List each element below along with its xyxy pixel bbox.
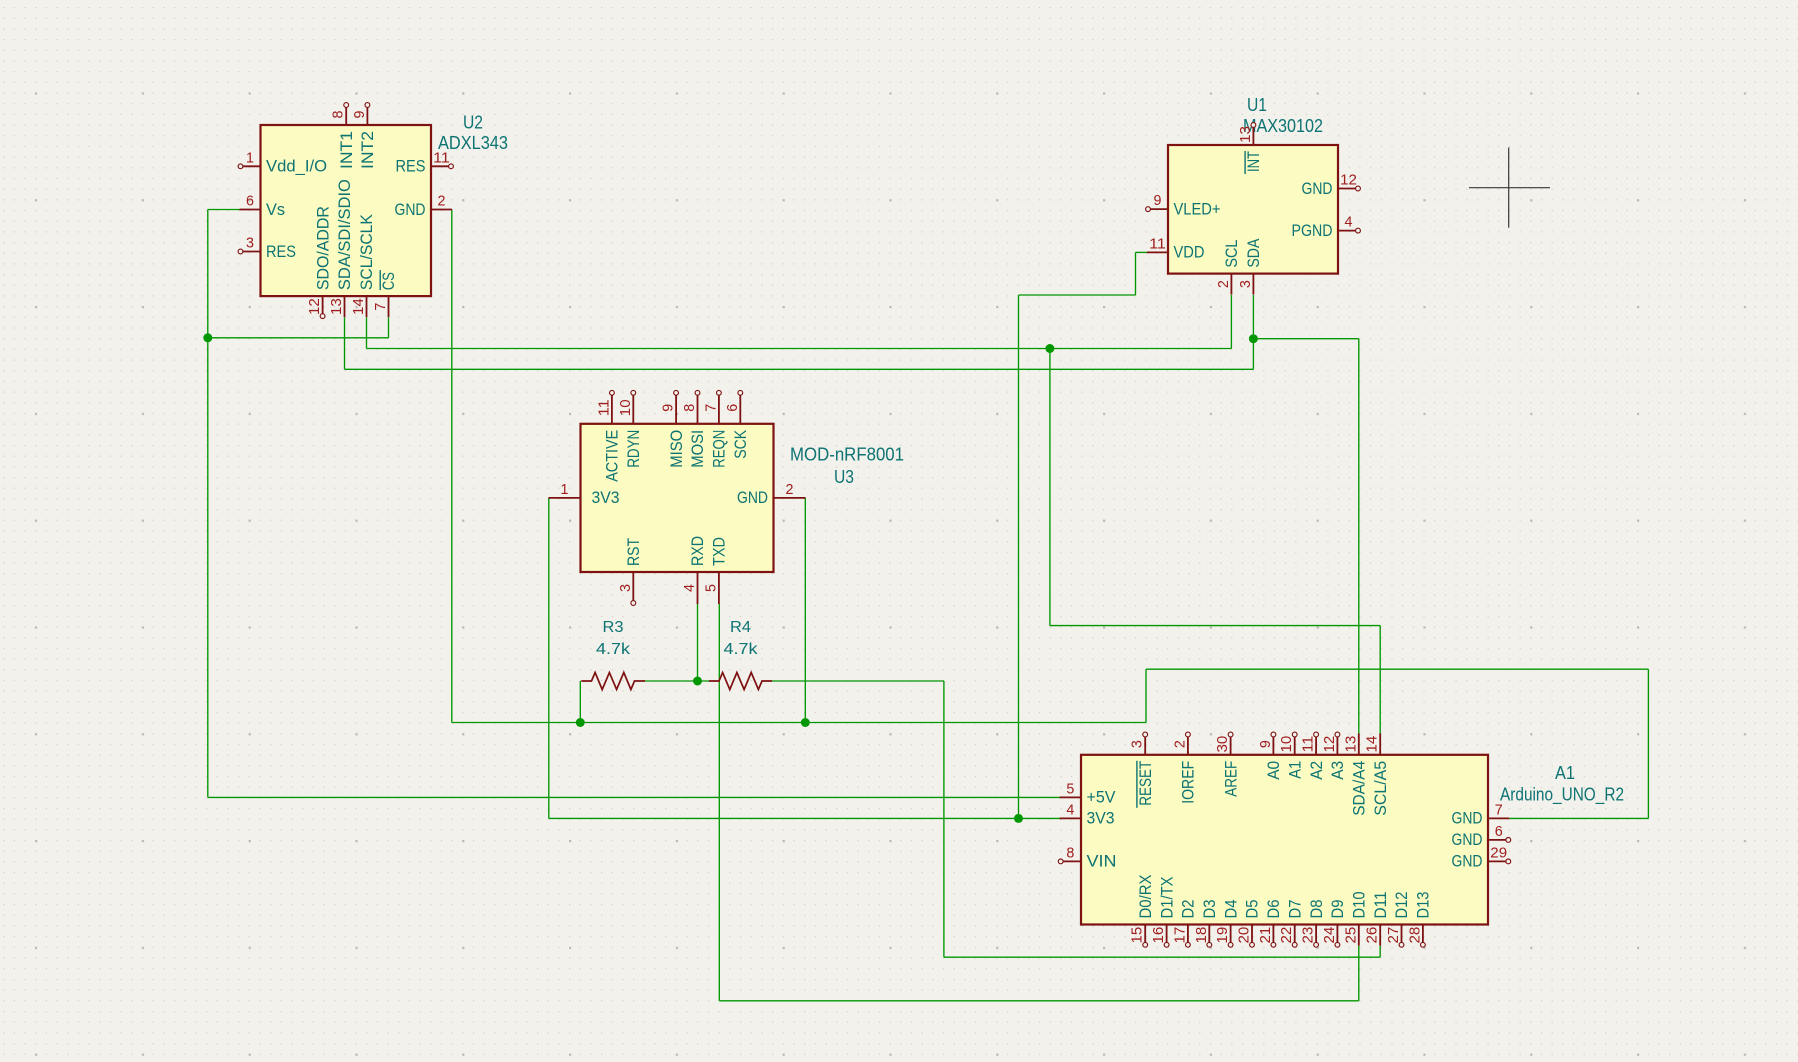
- wire U2.GND down: [451, 210, 453, 723]
- svg-text:22: 22: [1279, 927, 1295, 944]
- wire U2.Vs left: [208, 209, 240, 211]
- svg-text:RST: RST: [624, 538, 643, 566]
- pin 13 SDA/SDI/SDIO: [329, 179, 354, 317]
- svg-text:VLED+: VLED+: [1174, 199, 1221, 218]
- wire R4 right: [772, 680, 944, 682]
- svg-text:2: 2: [786, 482, 794, 498]
- svg-text:INT: INT: [1244, 151, 1263, 172]
- pin 13 SDA/A4: [1343, 734, 1368, 816]
- pin 16 D1/TX: [1151, 877, 1176, 948]
- svg-text:GND: GND: [1302, 179, 1333, 198]
- svg-text:27: 27: [1386, 927, 1402, 944]
- svg-text:D4: D4: [1221, 900, 1240, 919]
- svg-text:13: 13: [329, 298, 345, 315]
- svg-text:16: 16: [1151, 927, 1167, 944]
- pin 10 RDYN: [618, 390, 643, 467]
- pin 30 AREF: [1215, 732, 1240, 797]
- svg-text:INT2: INT2: [358, 131, 377, 169]
- wire SDA to A1 SDA/A4: [1358, 339, 1360, 734]
- svg-text:7: 7: [373, 303, 389, 311]
- pin 2 IOREF: [1172, 732, 1197, 804]
- pin 27 D12: [1386, 892, 1411, 948]
- pin 25 D10: [1343, 892, 1368, 946]
- pin 7 REQN: [703, 390, 728, 467]
- wire VDD down: [1135, 252, 1137, 295]
- pin 6 SCK: [725, 390, 750, 458]
- svg-text:9: 9: [352, 110, 368, 118]
- svg-text:9: 9: [1258, 740, 1274, 748]
- svg-text:ACTIVE: ACTIVE: [603, 430, 622, 482]
- svg-text:4.7k: 4.7k: [596, 641, 631, 658]
- wire U3.3V3 down: [548, 498, 550, 819]
- pin 12 SDO/ADDR: [307, 206, 332, 318]
- svg-text:Vdd_I/O: Vdd_I/O: [266, 157, 327, 176]
- svg-text:20: 20: [1237, 927, 1253, 944]
- pin 2 SCL: [1216, 240, 1241, 295]
- pin 2 GND: [737, 482, 806, 507]
- wire +5V horizontal to A1 +5V: [208, 796, 1061, 798]
- svg-text:7: 7: [703, 404, 719, 412]
- wire U2 SCL/SCLK down: [366, 317, 368, 348]
- junction SCL: [1045, 344, 1054, 353]
- svg-text:3: 3: [1238, 280, 1254, 288]
- svg-text:4.7k: 4.7k: [724, 641, 759, 658]
- pin 9 VLED+: [1146, 193, 1221, 218]
- svg-text:Arduino_UNO_R2: Arduino_UNO_R2: [1500, 784, 1624, 806]
- wire GND up: [1145, 669, 1147, 722]
- svg-text:11: 11: [1301, 736, 1317, 753]
- pin 9 MISO: [661, 390, 686, 467]
- svg-text:26: 26: [1365, 927, 1381, 944]
- wire SCL up to U1: [1230, 295, 1232, 349]
- svg-text:U1: U1: [1247, 94, 1267, 115]
- svg-text:D8: D8: [1307, 900, 1326, 919]
- resistor R3 4.7k: [581, 619, 645, 690]
- svg-text:4: 4: [682, 584, 698, 592]
- resistor R4 4.7k: [709, 619, 772, 690]
- svg-text:18: 18: [1194, 927, 1210, 944]
- svg-text:SCK: SCK: [731, 429, 750, 459]
- svg-text:REQN: REQN: [710, 430, 729, 468]
- pin 12 GND: [1302, 173, 1361, 198]
- svg-text:TXD: TXD: [710, 537, 729, 566]
- pin 8 VIN: [1058, 845, 1116, 870]
- pin 26 D11: [1365, 892, 1390, 946]
- pin 29 GND: [1452, 845, 1511, 870]
- svg-text:D13: D13: [1414, 892, 1433, 919]
- wire U1.VDD left: [1136, 251, 1148, 253]
- wire VDD vertical to 3V3: [1018, 295, 1020, 818]
- svg-text:D1/TX: D1/TX: [1157, 877, 1176, 919]
- svg-text:15: 15: [1130, 927, 1146, 944]
- pin 22 D7: [1279, 900, 1304, 948]
- svg-text:MOSI: MOSI: [688, 430, 707, 468]
- wire U3.GND down: [804, 498, 806, 723]
- wire SDA branch right: [1253, 338, 1358, 340]
- svg-text:9: 9: [661, 404, 677, 412]
- svg-text:3: 3: [1130, 740, 1146, 748]
- svg-text:1: 1: [246, 150, 254, 166]
- wire SCL horizontal: [367, 348, 1232, 350]
- pin 11 VDD: [1147, 236, 1205, 261]
- wire up to A1 D10: [1358, 946, 1360, 1001]
- pin 3 RES: [238, 236, 296, 261]
- svg-text:R3: R3: [603, 619, 624, 636]
- svg-text:RES: RES: [396, 157, 426, 176]
- svg-text:GND: GND: [1452, 830, 1483, 849]
- pin 1 Vdd_I/O: [238, 150, 327, 175]
- pin 9 A0: [1258, 732, 1283, 780]
- pin 18 D3: [1194, 900, 1219, 948]
- pin 4 PGND: [1292, 215, 1361, 240]
- svg-text:IOREF: IOREF: [1179, 761, 1198, 804]
- pin 4 RXD: [682, 536, 707, 604]
- svg-text:SDO/ADDR: SDO/ADDR: [313, 206, 332, 290]
- pin 10 A1: [1279, 732, 1304, 779]
- svg-text:Vs: Vs: [266, 200, 285, 219]
- wire D11 horizontal: [944, 956, 1380, 958]
- svg-text:3: 3: [246, 236, 254, 252]
- pin 5 TXD: [703, 537, 728, 604]
- junction SDA: [1249, 334, 1258, 343]
- junction GND/U3: [801, 718, 810, 727]
- svg-text:MOD-nRF8001: MOD-nRF8001: [790, 444, 904, 465]
- junction +5V/CS: [203, 333, 212, 342]
- wire R3-R4: [645, 680, 709, 682]
- IC U2 ADXL343 accelerometer: [238, 103, 453, 319]
- pin 14 SCL/SCLK: [351, 213, 376, 317]
- svg-text:8: 8: [331, 110, 347, 118]
- svg-text:8: 8: [1066, 845, 1074, 861]
- IC A1 Arduino UNO R2: [1058, 732, 1510, 947]
- pin 4 3V3: [1060, 802, 1115, 827]
- junction GND/R3: [576, 718, 585, 727]
- pin 9 INT2: [352, 103, 377, 169]
- pin 3 SDA: [1238, 238, 1263, 295]
- svg-text:5: 5: [1066, 781, 1074, 797]
- pin 7 GND: [1452, 802, 1510, 827]
- svg-text:14: 14: [1365, 736, 1381, 753]
- svg-text:INT1: INT1: [337, 131, 356, 169]
- svg-text:R4: R4: [730, 619, 751, 636]
- svg-text:3V3: 3V3: [1087, 809, 1115, 828]
- svg-text:SCL: SCL: [1222, 240, 1241, 268]
- svg-text:D3: D3: [1200, 900, 1219, 919]
- pin 11 A2: [1301, 732, 1326, 780]
- svg-text:6: 6: [1495, 824, 1503, 840]
- svg-text:GND: GND: [1452, 809, 1483, 828]
- svg-text:25: 25: [1343, 927, 1359, 944]
- pin 13 INT: [1238, 123, 1263, 174]
- svg-text:D0/RX: D0/RX: [1136, 875, 1155, 919]
- wire SDA horizontal: [345, 368, 1254, 370]
- svg-text:2: 2: [1172, 740, 1188, 748]
- wire up to A1 D11: [1379, 946, 1381, 957]
- pin 7 CS: [373, 270, 398, 317]
- svg-text:D9: D9: [1328, 900, 1347, 919]
- svg-text:GND: GND: [737, 488, 768, 507]
- svg-text:A1: A1: [1555, 762, 1575, 783]
- svg-text:14: 14: [351, 298, 367, 315]
- svg-text:D5: D5: [1243, 900, 1262, 919]
- svg-text:D10: D10: [1350, 892, 1369, 919]
- wire GND horizontal right: [1146, 668, 1648, 670]
- svg-text:4: 4: [1345, 215, 1353, 231]
- svg-text:17: 17: [1172, 927, 1188, 944]
- wire U3.TXD down: [718, 604, 720, 1001]
- svg-text:ADXL343: ADXL343: [438, 132, 508, 153]
- pin 3 RST: [618, 538, 643, 605]
- wire U2.CS down: [388, 317, 390, 338]
- pin 14 SCL/A5: [1365, 734, 1390, 816]
- svg-text:13: 13: [1238, 126, 1254, 143]
- pin 2 GND: [395, 194, 453, 219]
- junction RXD/R3/R4: [693, 677, 702, 686]
- pin 11 RES: [396, 150, 454, 175]
- svg-text:A2: A2: [1307, 761, 1326, 780]
- wire GND horizontal: [452, 722, 1146, 724]
- wire +5V vertical: [207, 210, 209, 798]
- svg-text:12: 12: [1340, 173, 1357, 189]
- svg-text:VIN: VIN: [1087, 852, 1117, 871]
- svg-text:1: 1: [561, 482, 569, 498]
- wire R3 left to GND: [579, 681, 581, 723]
- pin 19 D4: [1215, 900, 1240, 948]
- junction 3V3/VDD: [1014, 814, 1023, 823]
- svg-text:A0: A0: [1264, 761, 1283, 780]
- pin 21 D6: [1258, 900, 1283, 948]
- wire TXD to D10 horizontal: [719, 1000, 1359, 1002]
- pin 15 D0/RX: [1130, 875, 1155, 948]
- wire CS to Vs: [208, 337, 389, 339]
- svg-text:PGND: PGND: [1292, 221, 1333, 240]
- svg-text:6: 6: [725, 404, 741, 412]
- svg-text:21: 21: [1258, 927, 1274, 944]
- pin 8 MOSI: [682, 390, 707, 467]
- svg-text:D7: D7: [1285, 900, 1304, 919]
- svg-text:AREF: AREF: [1221, 761, 1240, 797]
- svg-text:28: 28: [1407, 927, 1423, 944]
- svg-text:SDA: SDA: [1244, 238, 1263, 268]
- wire U2 SDA down: [344, 317, 346, 369]
- wire D11 vertical: [943, 681, 945, 957]
- pin 24 D9: [1322, 900, 1347, 948]
- svg-text:CS: CS: [379, 272, 398, 290]
- svg-text:A1: A1: [1285, 761, 1304, 779]
- svg-text:7: 7: [1495, 802, 1503, 818]
- pin 11 ACTIVE: [596, 390, 621, 481]
- pin 12 A3: [1322, 732, 1347, 780]
- svg-text:4: 4: [1066, 802, 1074, 818]
- svg-text:SDA/A4: SDA/A4: [1350, 761, 1369, 816]
- svg-text:D11: D11: [1371, 892, 1390, 919]
- svg-text:11: 11: [596, 399, 612, 416]
- svg-text:23: 23: [1301, 927, 1317, 944]
- svg-text:SDA/SDI/SDIO: SDA/SDI/SDIO: [335, 179, 354, 290]
- pin 8 INT1: [331, 103, 356, 169]
- pin 23 D8: [1301, 900, 1326, 948]
- svg-text:2: 2: [1216, 280, 1232, 288]
- svg-text:SCL/A5: SCL/A5: [1371, 761, 1390, 816]
- svg-text:19: 19: [1215, 927, 1231, 944]
- svg-text:+5V: +5V: [1087, 788, 1117, 807]
- pin 28 D13: [1407, 892, 1432, 948]
- svg-text:2: 2: [438, 194, 446, 210]
- svg-text:3V3: 3V3: [592, 488, 620, 507]
- svg-text:GND: GND: [395, 200, 426, 219]
- pin 3 RESET: [1130, 732, 1155, 808]
- svg-text:U3: U3: [834, 466, 854, 487]
- wire SDA up to U1: [1252, 295, 1254, 369]
- svg-text:12: 12: [1322, 736, 1338, 753]
- svg-text:MISO: MISO: [667, 430, 686, 468]
- svg-text:6: 6: [246, 194, 254, 210]
- wire SCL branch down: [1049, 349, 1051, 626]
- svg-text:VDD: VDD: [1174, 243, 1205, 262]
- pin 17 D2: [1172, 900, 1197, 948]
- svg-text:9: 9: [1154, 193, 1162, 209]
- svg-text:30: 30: [1215, 736, 1231, 753]
- svg-text:24: 24: [1322, 927, 1338, 944]
- wire U3.RXD down: [697, 604, 699, 681]
- svg-text:A3: A3: [1328, 761, 1347, 780]
- svg-text:D12: D12: [1392, 892, 1411, 919]
- svg-text:5: 5: [703, 584, 719, 592]
- svg-text:12: 12: [307, 298, 323, 315]
- svg-text:10: 10: [618, 399, 634, 416]
- pin 6 Vs: [240, 194, 286, 219]
- IC U1 MAX30102 sensor: [1146, 123, 1361, 295]
- pin 1 3V3: [549, 482, 620, 507]
- IC U3 MOD-nRF8001 BLE module: [549, 390, 806, 605]
- svg-text:RDYN: RDYN: [624, 430, 643, 468]
- crosshair cursor marker: [1469, 148, 1550, 228]
- wire GND to A1 pin7: [1510, 817, 1649, 819]
- svg-text:U2: U2: [463, 112, 483, 133]
- svg-text:RESET: RESET: [1136, 761, 1155, 806]
- wire 3V3 horizontal to A1 3V3: [549, 817, 1061, 819]
- svg-text:13: 13: [1343, 736, 1359, 753]
- wire SCL to A1 SCL/A5: [1379, 626, 1381, 734]
- svg-text:SCL/SCLK: SCL/SCLK: [357, 213, 376, 290]
- svg-text:D6: D6: [1264, 900, 1283, 919]
- svg-text:8: 8: [682, 404, 698, 412]
- pin 6 GND: [1452, 824, 1511, 849]
- wire VDD left2: [1019, 294, 1136, 296]
- svg-text:3: 3: [618, 584, 634, 592]
- svg-text:29: 29: [1490, 845, 1507, 861]
- pin 5 +5V: [1060, 781, 1116, 806]
- wire SCL branch right: [1050, 625, 1380, 627]
- wire GND down right: [1647, 669, 1649, 818]
- svg-text:GND: GND: [1452, 852, 1483, 871]
- pin 20 D5: [1237, 900, 1262, 948]
- svg-text:RES: RES: [266, 242, 296, 261]
- svg-text:10: 10: [1279, 736, 1295, 753]
- svg-text:11: 11: [1149, 236, 1166, 252]
- svg-text:D2: D2: [1179, 900, 1198, 919]
- svg-text:RXD: RXD: [688, 536, 707, 566]
